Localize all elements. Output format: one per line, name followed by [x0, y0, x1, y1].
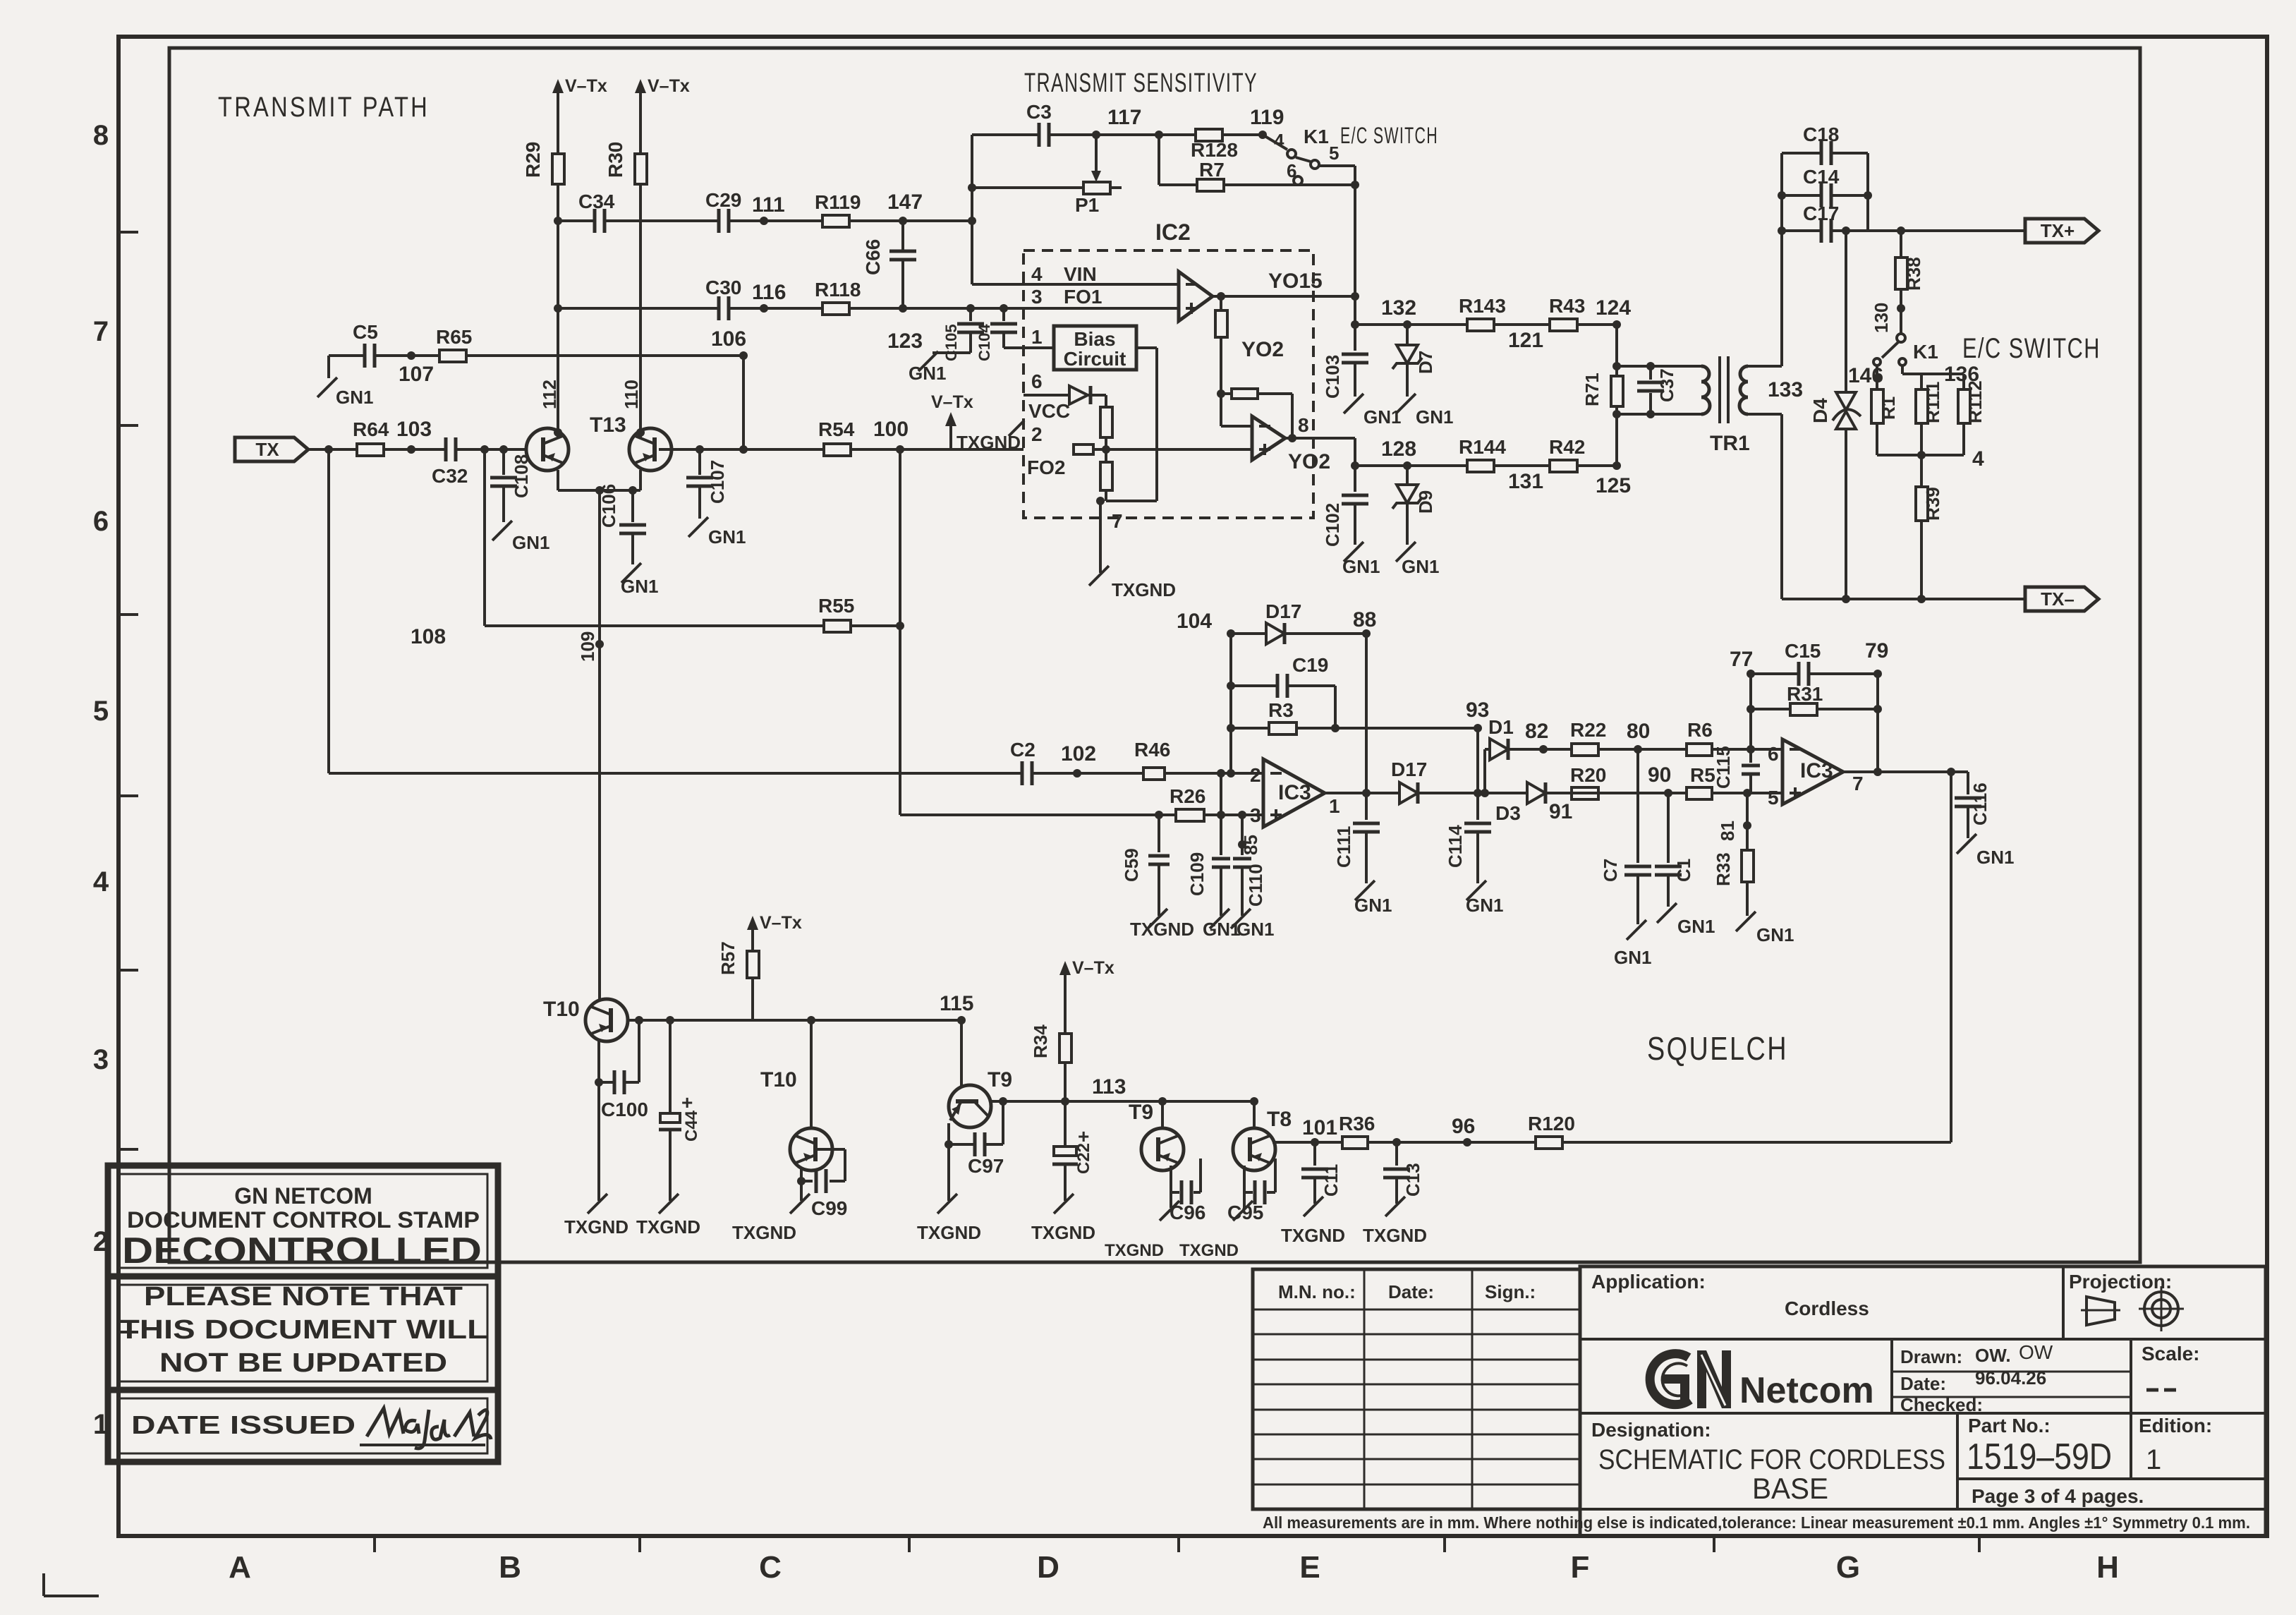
svg-text:YO15: YO15	[1268, 270, 1323, 293]
resistor R111	[1902, 365, 1964, 455]
svg-text:C97: C97	[968, 1155, 1004, 1177]
svg-text:V–Tx: V–Tx	[1072, 958, 1114, 978]
wire resistor bottom rail	[1877, 447, 1984, 471]
IC2 bias loop wires	[1106, 348, 1157, 501]
power arrow V-Tx above R57	[747, 913, 802, 948]
title block Drawn Date Checked	[1900, 1341, 2053, 1415]
svg-text:T8: T8	[1267, 1108, 1292, 1131]
svg-text:TXGND: TXGND	[564, 1216, 628, 1238]
svg-text:C18: C18	[1803, 123, 1839, 145]
svg-text:F: F	[1571, 1550, 1590, 1585]
svg-text:R39: R39	[1922, 487, 1943, 521]
svg-text:T10: T10	[760, 1068, 797, 1091]
diode D3	[1495, 782, 1545, 824]
resistor R33	[1713, 793, 1754, 916]
svg-text:K1: K1	[1304, 126, 1329, 147]
svg-text:R65: R65	[436, 326, 472, 348]
IC2 series resistor on FO2 line	[1074, 444, 1093, 454]
ground TXGND below C44	[636, 1194, 700, 1238]
resistor R119	[815, 191, 861, 227]
resistor R120	[1528, 1113, 1575, 1149]
svg-text:D9: D9	[1415, 490, 1436, 514]
svg-text:GN1: GN1	[1677, 916, 1715, 937]
svg-text:OW.: OW.	[1975, 1345, 2011, 1366]
svg-text:TXGND: TXGND	[917, 1222, 981, 1243]
capacitor C30	[705, 277, 741, 320]
resistor R34	[1030, 993, 1071, 1101]
wire 128 rail	[1351, 461, 1621, 470]
wire T13 collector links	[558, 429, 640, 439]
node 96	[1452, 1115, 1475, 1138]
wire node106 drop	[742, 356, 745, 449]
svg-text:123: 123	[887, 329, 923, 353]
svg-text:TXGND: TXGND	[732, 1222, 796, 1243]
title block Page row	[1972, 1485, 2144, 1507]
wire T9 first emitter column	[944, 1123, 953, 1201]
svg-text:IC3: IC3	[1800, 759, 1833, 782]
svg-text:93: 93	[1466, 698, 1489, 722]
capacitor C11	[1301, 1142, 1342, 1204]
wire C15 rail	[1747, 670, 1882, 678]
node 136	[1944, 363, 1979, 386]
transistor T8	[1233, 1101, 1292, 1171]
power arrow V-Tx near IC2 pin6	[931, 392, 973, 450]
wire trunk x1921 upper	[1351, 166, 1359, 325]
svg-text:Date:: Date:	[1388, 1281, 1434, 1302]
svg-text:R20: R20	[1570, 764, 1606, 786]
corner registration mark bottom-left	[44, 1573, 99, 1596]
relay switch K1 (top)	[1263, 126, 1355, 185]
svg-text:YO2: YO2	[1241, 338, 1284, 361]
resistor R29	[522, 142, 564, 184]
node 133	[1768, 378, 1803, 401]
title block revision table M.N. Date Sign	[1253, 1269, 1580, 1509]
ground TXGND below C13	[1363, 1197, 1427, 1246]
svg-text:R144: R144	[1459, 436, 1506, 458]
wire C3 rail y191	[972, 131, 1267, 139]
capacitor C34	[578, 190, 615, 233]
svg-text:C111: C111	[1333, 826, 1354, 868]
power arrow V-Tx above R29	[552, 76, 607, 111]
svg-text:PLEASE NOTE THAT: PLEASE NOTE THAT	[144, 1282, 463, 1312]
svg-text:GN1: GN1	[1466, 895, 1503, 916]
svg-text:TRANSMIT SENSITIVITY: TRANSMIT SENSITIVITY	[1024, 68, 1258, 98]
wire node100 column	[899, 449, 901, 815]
ground GN1 below C105	[909, 351, 946, 384]
op-amp IC2-A	[1179, 272, 1213, 321]
svg-text:119: 119	[1250, 106, 1284, 129]
wire ladder left rail x2526	[1778, 153, 1786, 599]
transformer TR1	[1701, 356, 1750, 455]
svg-text:TXGND: TXGND	[1112, 579, 1176, 600]
svg-text:130: 130	[1871, 303, 1892, 333]
svg-text:SQUELCH: SQUELCH	[1647, 1030, 1788, 1067]
IC2 bias resistor upper	[1100, 395, 1112, 462]
svg-text:THIS DOCUMENT WILL: THIS DOCUMENT WILL	[119, 1315, 487, 1345]
wire 104-88 rail	[1227, 629, 1371, 638]
capacitor C29	[705, 189, 741, 233]
stamp GN NETCOM DOCUMENT CONTROL DECONTROLLED	[108, 1166, 498, 1276]
wire IC2-B plus rail	[1093, 448, 1252, 451]
node 101	[1302, 1116, 1337, 1139]
svg-text:7: 7	[93, 316, 109, 347]
svg-text:R1: R1	[1878, 397, 1899, 420]
ground TXGND below T9 first	[917, 1194, 981, 1243]
svg-text:C2: C2	[1010, 739, 1035, 761]
wire R5 to plus input	[1712, 789, 1782, 797]
svg-text:Edition:: Edition:	[2139, 1415, 2212, 1436]
ground TXGND below T8	[1179, 1192, 1253, 1260]
svg-text:147: 147	[887, 190, 923, 214]
svg-text:5: 5	[1329, 143, 1339, 164]
svg-text:NOT BE UPDATED: NOT BE UPDATED	[159, 1348, 447, 1378]
connector TX-	[2025, 587, 2098, 611]
svg-text:Application:: Application:	[1591, 1271, 1706, 1293]
svg-text:P1: P1	[1075, 194, 1099, 216]
resistor R118	[815, 279, 861, 315]
wire IC3 output to corner	[1843, 768, 1968, 776]
wire node93 column	[1476, 728, 1479, 793]
svg-text:R54: R54	[818, 418, 855, 440]
node 146	[1848, 364, 1883, 387]
svg-text:C15: C15	[1785, 640, 1821, 662]
capacitor C108	[490, 449, 532, 522]
node 113	[1092, 1075, 1126, 1099]
resistor R39	[1916, 455, 1943, 599]
power arrow V-Tx above R34	[1059, 958, 1114, 993]
svg-text:C103: C103	[1322, 355, 1343, 399]
svg-text:FO1: FO1	[1064, 286, 1102, 308]
node 130	[1871, 303, 1892, 333]
svg-text:C116: C116	[1969, 782, 1991, 825]
svg-text:All measurements are in mm: All measurements are in mm. Where nothin…	[1263, 1513, 2250, 1532]
svg-text:GN1: GN1	[1237, 919, 1274, 940]
wire T9 emitter-output rail y1561	[990, 1097, 1176, 1106]
ground GN1 below C1	[1657, 903, 1715, 937]
op-amp IC3 first	[1250, 759, 1340, 827]
node 132	[1381, 296, 1416, 320]
svg-text:C107: C107	[707, 460, 728, 504]
wire pin8 output	[1285, 414, 1355, 473]
svg-text:R3: R3	[1268, 699, 1294, 721]
svg-text:GN1: GN1	[512, 532, 549, 553]
IC2 pin7 wire	[1096, 497, 1123, 573]
capacitor C109	[1186, 773, 1230, 916]
node 108	[411, 625, 446, 648]
svg-text:2: 2	[1250, 764, 1261, 786]
svg-text:Bias: Bias	[1074, 328, 1115, 350]
svg-text:GN1: GN1	[1363, 406, 1401, 428]
resistor R128	[1191, 129, 1238, 161]
wire R29 column	[557, 111, 559, 429]
relay switch K1 (line side)	[1873, 334, 1938, 365]
svg-text:6: 6	[93, 506, 109, 537]
svg-text:D3: D3	[1495, 802, 1521, 824]
svg-text:GN1: GN1	[909, 363, 946, 384]
node 131	[1508, 470, 1543, 493]
logo GN Netcom	[1650, 1350, 1874, 1411]
svg-text:D: D	[1037, 1550, 1059, 1585]
svg-text:C104: C104	[976, 324, 993, 361]
svg-text:116: 116	[752, 281, 786, 304]
wire TR1 primary rails	[1617, 362, 1701, 418]
resistor R42	[1549, 436, 1585, 472]
svg-text:C1: C1	[1673, 859, 1694, 882]
op-amp IC3 second	[1768, 739, 1864, 809]
ground GN1 below D7	[1396, 394, 1453, 428]
svg-text:C109: C109	[1186, 852, 1208, 896]
ground TXGND below T10 first	[564, 1194, 628, 1238]
svg-text:TX+: TX+	[2041, 220, 2075, 241]
node 107	[399, 363, 434, 386]
node 109	[577, 631, 598, 662]
svg-text:GN NETCOM: GN NETCOM	[234, 1183, 372, 1209]
wire 132 rail	[1351, 320, 1621, 329]
svg-text:C100: C100	[601, 1099, 648, 1120]
ground GN1 below C110	[1231, 909, 1274, 940]
wire node115 column	[960, 1020, 963, 1088]
transistor T9 first	[949, 1068, 1012, 1127]
svg-text:+: +	[681, 1091, 693, 1113]
ground TXGND below C59	[1130, 909, 1194, 940]
svg-text:GN1: GN1	[1976, 847, 2014, 868]
svg-text:85: 85	[1240, 835, 1261, 855]
svg-text:R46: R46	[1134, 739, 1170, 761]
capacitor C32	[432, 437, 468, 487]
svg-text:C99: C99	[811, 1197, 847, 1219]
node 88	[1353, 608, 1376, 631]
transistor T13 (right)	[629, 428, 672, 471]
svg-text:V–Tx: V–Tx	[565, 76, 607, 96]
svg-text:Netcom: Netcom	[1739, 1370, 1874, 1411]
svg-text:Drawn:: Drawn:	[1900, 1346, 1962, 1367]
svg-text:TX: TX	[255, 439, 279, 460]
section title SQUELCH	[1647, 1030, 1788, 1067]
capacitor C19	[1231, 654, 1335, 728]
node 100	[873, 418, 909, 441]
svg-text:R111: R111	[1922, 382, 1943, 423]
svg-text:88: 88	[1353, 608, 1376, 631]
svg-text:YO2: YO2	[1288, 450, 1330, 473]
diode D17 series	[1391, 758, 1427, 804]
node 102	[1061, 742, 1096, 766]
capacitor C5	[353, 321, 378, 368]
svg-text:T9: T9	[1129, 1101, 1153, 1124]
title block Projection cell	[2069, 1271, 2184, 1331]
svg-text:TXGND: TXGND	[956, 432, 1021, 453]
resistor R43	[1549, 295, 1585, 331]
svg-text:G: G	[1836, 1550, 1860, 1585]
svg-text:IC2: IC2	[1155, 219, 1191, 245]
svg-text:TXGND: TXGND	[1105, 1241, 1164, 1260]
column coordinate labels A-H bottom margin	[229, 1536, 2119, 1585]
ground GN1 below C116	[1957, 834, 2014, 868]
section title E/C SWITCH (relay K1 top)	[1340, 123, 1438, 148]
node 93	[1466, 698, 1489, 722]
title block Edition	[2139, 1415, 2212, 1475]
svg-text:96.04.26: 96.04.26	[1975, 1367, 2046, 1389]
svg-text:6: 6	[1031, 370, 1043, 392]
zener diode D7	[1392, 325, 1436, 397]
svg-text:91: 91	[1549, 800, 1572, 823]
svg-text:A: A	[229, 1550, 251, 1585]
svg-text:B: B	[499, 1550, 521, 1585]
svg-text:C7: C7	[1600, 859, 1621, 882]
node 110	[621, 380, 645, 437]
svg-text:106: 106	[711, 327, 746, 351]
wire D1 branch	[1485, 745, 1687, 793]
node 90	[1648, 763, 1671, 787]
svg-text:C14: C14	[1803, 166, 1840, 188]
wire TX+ line	[1842, 226, 2025, 235]
svg-text:108: 108	[411, 625, 446, 648]
svg-text:128: 128	[1381, 437, 1416, 461]
node 79	[1865, 639, 1888, 663]
capacitor C97	[949, 1101, 1004, 1177]
svg-text:Circuit: Circuit	[1064, 348, 1126, 370]
node 77	[1730, 648, 1753, 671]
node 106	[711, 327, 746, 351]
svg-text:DATE ISSUED: DATE ISSUED	[131, 1410, 356, 1439]
transistor T9 second	[1129, 1101, 1184, 1171]
svg-text:C110: C110	[1245, 864, 1266, 907]
svg-text:D4: D4	[1809, 398, 1831, 423]
svg-text:5: 5	[93, 696, 109, 727]
svg-text:111: 111	[752, 193, 785, 217]
wire TR1 secondary leads	[1748, 366, 1782, 414]
svg-text:124: 124	[1596, 296, 1631, 320]
svg-text:C59: C59	[1121, 848, 1142, 882]
transistor T10 second	[760, 1020, 832, 1171]
wire trunk x1378	[968, 135, 976, 284]
svg-text:R118: R118	[815, 279, 861, 301]
svg-text:R36: R36	[1339, 1113, 1375, 1135]
svg-text:V–Tx: V–Tx	[931, 392, 973, 412]
resistor R64	[353, 418, 389, 456]
svg-text:132: 132	[1381, 296, 1416, 320]
svg-text:R143: R143	[1459, 295, 1506, 317]
svg-text:C37: C37	[1656, 368, 1677, 402]
resistor R31	[1787, 683, 1823, 715]
capacitor C13	[1383, 1142, 1423, 1204]
svg-text:FO2: FO2	[1027, 456, 1065, 478]
svg-text:R6: R6	[1687, 719, 1713, 741]
ground GN1 below C106	[621, 563, 658, 597]
resistor R3	[1268, 699, 1296, 734]
svg-text:TXGND: TXGND	[1031, 1222, 1095, 1243]
svg-text:109: 109	[577, 631, 598, 662]
svg-text:82: 82	[1525, 720, 1548, 743]
wire IC3 output rail	[1325, 789, 1687, 797]
svg-text:R43: R43	[1549, 295, 1585, 317]
svg-text:C5: C5	[353, 321, 378, 343]
wire YO15 output	[1213, 270, 1355, 296]
svg-text:TRANSMIT PATH: TRANSMIT PATH	[218, 92, 430, 123]
svg-text:H: H	[2096, 1550, 2119, 1585]
svg-text:T9: T9	[988, 1068, 1012, 1091]
svg-text:Sign.:: Sign.:	[1485, 1281, 1536, 1302]
svg-text:GN1: GN1	[708, 526, 746, 548]
svg-text:3: 3	[1031, 286, 1043, 308]
svg-text:BASE: BASE	[1752, 1472, 1828, 1505]
ground GN1 below C103	[1344, 394, 1401, 428]
svg-text:TXGND: TXGND	[1130, 919, 1194, 940]
svg-text:C22: C22	[1074, 1143, 1093, 1174]
title block tolerance strip	[1263, 1513, 2250, 1532]
resistor R71	[1581, 325, 1623, 466]
ground GN1 below R33	[1736, 912, 1794, 945]
title block Scale cell	[2142, 1343, 2200, 1390]
wire node108 rail y887	[485, 449, 904, 630]
capacitor C107	[686, 449, 728, 519]
resistor R22	[1570, 719, 1606, 756]
svg-text:C114: C114	[1445, 825, 1466, 868]
wire T13 output rail	[659, 445, 824, 454]
row coordinate labels 8-1 left margin	[93, 120, 138, 1440]
wire feedback verticals	[1751, 674, 1878, 772]
svg-text:96: 96	[1452, 1115, 1475, 1138]
svg-text:8: 8	[1298, 414, 1309, 436]
svg-text:GN1: GN1	[1402, 556, 1439, 577]
svg-text:3: 3	[93, 1044, 109, 1075]
section title TRANSMIT SENSITIVITY	[1024, 68, 1258, 98]
svg-text:Projection:: Projection:	[2069, 1271, 2172, 1293]
resistor R26	[1170, 785, 1205, 821]
resistor R54	[818, 418, 855, 456]
capacitor C96	[1170, 1159, 1205, 1223]
wire T13 emitter rail y695	[558, 470, 640, 495]
svg-text:R112: R112	[1964, 380, 1986, 423]
inner drawing frame	[169, 48, 2140, 1262]
svg-text:1: 1	[1031, 326, 1043, 348]
zener diode D4 bidirectional	[1809, 231, 1861, 599]
stamp PLEASE NOTE THAT THIS DOCUMENT WILL NOT BE UPDATED	[108, 1276, 498, 1390]
svg-text:7: 7	[1112, 510, 1123, 532]
svg-text:E/C SWITCH: E/C SWITCH	[1340, 123, 1438, 148]
wire ladder right rail x2648	[1864, 153, 1872, 231]
svg-text:C108: C108	[511, 454, 532, 498]
title block Designation	[1591, 1419, 1945, 1505]
node 125	[1596, 474, 1631, 497]
svg-text:8: 8	[93, 120, 109, 151]
node 115	[940, 992, 973, 1015]
svg-text:6: 6	[1768, 743, 1779, 765]
svg-text:5: 5	[1768, 787, 1779, 809]
wire T8 output to 101	[1272, 1138, 1319, 1147]
svg-text:104: 104	[1177, 610, 1212, 633]
capacitor C116	[1955, 772, 1991, 838]
svg-text:C19: C19	[1292, 654, 1328, 676]
IC2 pin4 VIN rail	[972, 263, 1179, 285]
op-amp IC2-B	[1252, 416, 1285, 460]
wire C2 minus rail y1096	[329, 769, 1263, 778]
svg-text:7: 7	[1852, 773, 1864, 794]
section title TRANSMIT PATH	[218, 92, 430, 123]
svg-text:Part No.:: Part No.:	[1968, 1415, 2051, 1436]
zener diode D9	[1392, 466, 1436, 545]
node 124	[1596, 296, 1631, 320]
IC2 pin3 FO1 label	[1031, 286, 1102, 308]
svg-text:3: 3	[1250, 804, 1261, 826]
wire 101-96 rail y1619	[1315, 1138, 1536, 1147]
resistor R143	[1459, 295, 1506, 331]
svg-text:117: 117	[1107, 106, 1141, 129]
resistor R5	[1687, 764, 1715, 799]
capacitor C3	[1026, 101, 1052, 147]
svg-text:D7: D7	[1415, 351, 1436, 374]
ground GN1 below C114	[1466, 881, 1503, 916]
wire rail node106 y504	[329, 351, 748, 360]
